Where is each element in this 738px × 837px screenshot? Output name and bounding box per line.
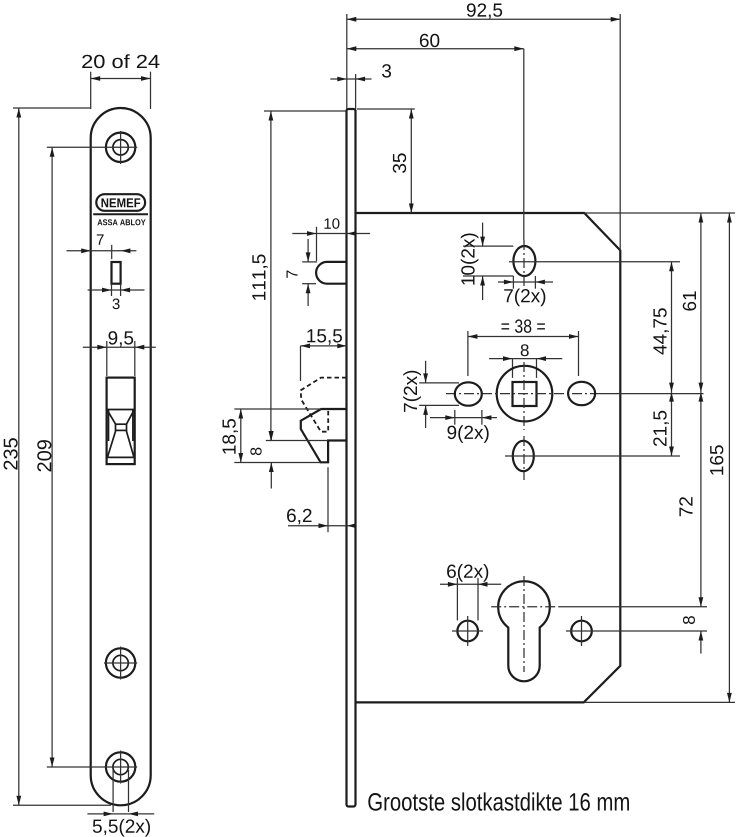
dimension 235 (4, 108, 111, 805)
dimension 6,2 (287, 467, 356, 532)
small slot 3x7 (112, 262, 121, 284)
lock case outline (356, 213, 621, 702)
note Grootste slotkastdikte 16 mm (368, 792, 629, 810)
dimension 9(2x) (430, 410, 497, 443)
middle screw hole (104, 647, 137, 680)
dimension 92,5 (347, 3, 620, 250)
dimension 7 slot offset (67, 234, 137, 259)
bottom edge extension (584, 701, 735, 703)
lower oval hole (505, 436, 680, 480)
dimension 8 square (489, 344, 562, 378)
dimension 3 faceplate thickness (330, 64, 391, 109)
spindle follower (446, 362, 704, 430)
hook bolt solid (301, 409, 347, 462)
dimension 3 slot width (88, 284, 145, 309)
left cylinder screw hole (452, 616, 483, 646)
latch retracted dashed (301, 378, 347, 432)
dimension 8 cylinder offset (683, 616, 703, 653)
faceplate bar edge view (347, 109, 356, 807)
NEMEF logo (93, 194, 148, 225)
dimension 7(2x) left hole (403, 361, 459, 428)
dimension 72 (679, 392, 703, 607)
dimension 6(2x) (440, 564, 501, 620)
dimension 165 (710, 213, 732, 702)
dimension 44,75 (653, 262, 673, 392)
dimension 10 latch (292, 218, 370, 261)
dimension 8 hook (250, 431, 327, 489)
dimension 60 (347, 34, 524, 240)
dimension 15,5 (301, 329, 347, 381)
bottom screw hole (106, 751, 135, 784)
right cylinder screw hole (566, 616, 707, 646)
dimension 61 (683, 213, 704, 392)
top screw hole (104, 131, 137, 164)
faceplate outline (91, 108, 151, 805)
dimension 20 of 24 (82, 54, 159, 109)
dimension 7 latch height (286, 239, 317, 306)
dimension 10(2x) (461, 223, 514, 301)
dimension 21,5 (653, 392, 674, 456)
dimension 35 (357, 109, 415, 213)
dimension 5,5(2x) (87, 770, 154, 837)
euro cylinder hole (491, 576, 707, 681)
latch bolt side view (316, 262, 347, 284)
deadbolt cutout (107, 378, 135, 465)
dimension 7(2x) top (498, 276, 553, 306)
dimension =38= (468, 319, 579, 376)
left side hole (455, 382, 482, 405)
top edge extension (584, 212, 735, 214)
dimension 111,5 (252, 111, 346, 441)
right side hole (568, 382, 595, 405)
dimension 18,5 (222, 409, 321, 463)
top oval hole (509, 240, 680, 286)
dimension 209 (37, 147, 137, 767)
dimension 9,5 bolt cutout width (83, 331, 156, 376)
